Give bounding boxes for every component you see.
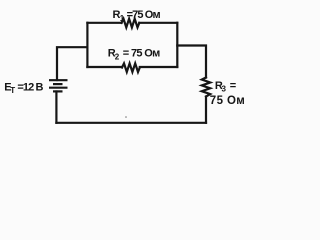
- wire: bottom rail: [56, 122, 206, 124]
- resistor R3: [202, 78, 210, 97]
- wire: parallel box bottom line right segment: [140, 66, 178, 68]
- resistor R1: [122, 19, 140, 28]
- wire: parallel box bottom line left segment: [87, 66, 122, 68]
- svg-text:T: T: [10, 86, 15, 95]
- speck on bottom rail: [125, 116, 127, 118]
- resistor R2: [122, 63, 140, 72]
- wire: parallel box top line right segment: [139, 22, 177, 24]
- wire: parallel box right edge: [176, 23, 178, 67]
- wire: parallel box left edge: [86, 23, 88, 67]
- wire: R3 bottom to bottom rail: [205, 97, 207, 123]
- wire: bottom rail up to battery bottom: [55, 92, 57, 123]
- wire: parallel box top line left segment: [87, 22, 121, 24]
- svg-text:=: =: [230, 80, 236, 92]
- svg-text:=75 Ом: =75 Ом: [127, 9, 161, 21]
- label R2 = 75 Om: [108, 48, 161, 62]
- wire: box right middle to R3 top: [177, 46, 206, 78]
- svg-text:=12 В: =12 В: [17, 81, 43, 93]
- label R1 = 75 Om: [113, 9, 161, 23]
- svg-text:1: 1: [120, 14, 125, 23]
- svg-text:= 75 Ом: = 75 Ом: [123, 48, 161, 60]
- battery ET: [49, 80, 68, 91]
- label ET = 12 V: [4, 81, 43, 95]
- svg-text:75 Ом: 75 Ом: [210, 95, 245, 107]
- svg-text:3: 3: [222, 85, 227, 94]
- label R3 =: [215, 80, 236, 94]
- wire: battery top to box left middle: [57, 47, 87, 80]
- svg-text:2: 2: [115, 52, 120, 61]
